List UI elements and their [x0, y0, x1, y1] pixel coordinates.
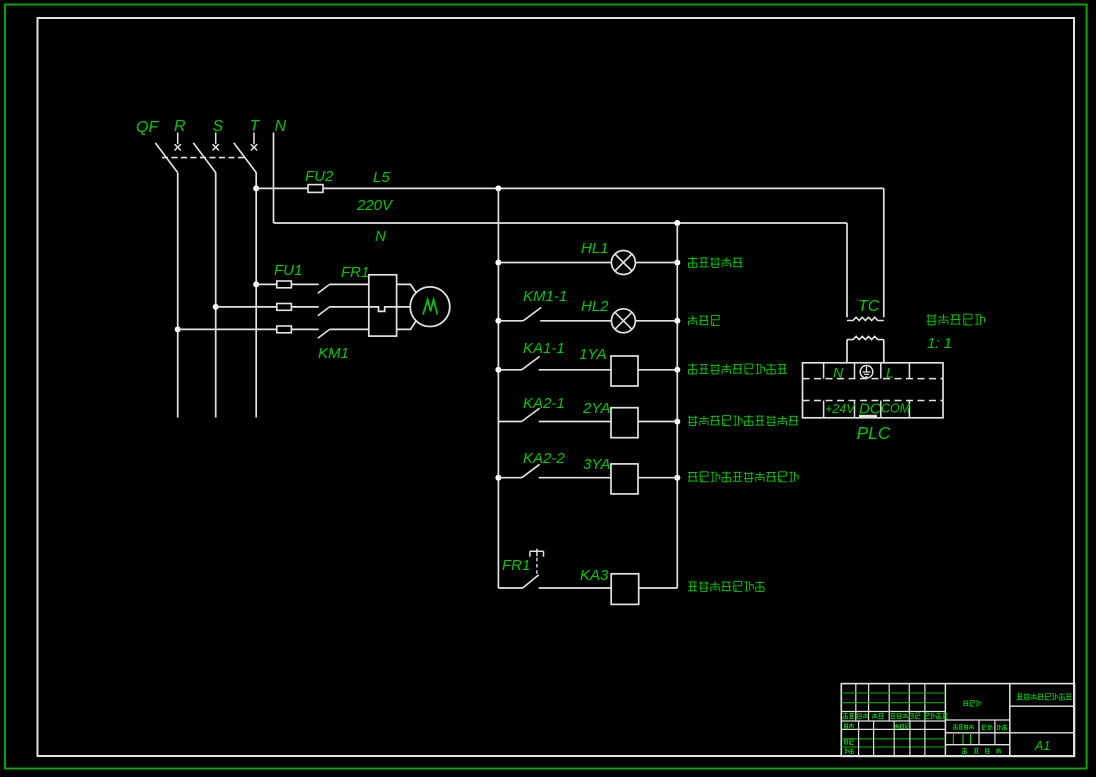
contact FR1 blade (NC thermal)	[523, 575, 539, 588]
wire KA3 right	[639, 587, 678, 589]
label motor overload protection	[688, 581, 765, 592]
cell text biaozhunhua	[895, 724, 910, 729]
wire KA2-2 left	[498, 477, 521, 479]
contact KA2-2 blade	[522, 464, 540, 477]
svg-text:N: N	[833, 365, 844, 381]
wire KM1 row2 to FR1	[329, 306, 369, 308]
PLC bottom terminal divider x=880.8	[880, 401, 882, 418]
coil 3YA	[611, 464, 638, 494]
contact KA2-1 blade	[522, 408, 540, 421]
ground symbol (PE terminal)	[860, 366, 873, 379]
wire KM1 row3 to FR1	[329, 328, 369, 330]
wire phase T vertical	[255, 172, 257, 417]
svg-text:KA2-1: KA2-1	[523, 395, 565, 412]
breaker QF pole S contact x-mark	[213, 144, 219, 150]
wire N bus	[274, 222, 848, 224]
wire FU1 row2 lead-in	[216, 306, 277, 308]
wire KA3 middle	[539, 587, 612, 589]
thermal relay FR1 box	[369, 275, 397, 336]
wire phase S vertical	[215, 173, 217, 418]
svg-text:PLC: PLC	[857, 423, 891, 443]
svg-text:N: N	[275, 118, 287, 135]
coil KA3	[611, 574, 639, 605]
transformer TC primary winding	[847, 317, 884, 320]
cell text gong-zhang-di-zhang	[962, 748, 967, 754]
svg-text:QF: QF	[136, 119, 159, 136]
contactor KM1 main contact 3 blade	[318, 330, 329, 339]
node 3YA right	[674, 475, 680, 481]
PLC bottom terminal divider x=854.5	[854, 401, 856, 418]
PLC bottom terminal divider x=823.6	[823, 401, 825, 418]
fuse FU1-3	[277, 326, 292, 333]
PLC top terminal divider x=880.8	[880, 363, 882, 379]
wire HL1 right	[635, 262, 677, 264]
motor M circle	[410, 287, 450, 327]
PLC top terminal dashed line	[803, 378, 944, 380]
svg-text:N: N	[375, 228, 386, 245]
wire KM1 row1 to FR1	[329, 283, 369, 285]
svg-text:KA1-1: KA1-1	[523, 340, 565, 357]
wire 3YA middle	[539, 477, 611, 479]
fuse FU2	[308, 185, 323, 193]
node HL2 left	[495, 318, 501, 324]
svg-text:TC: TC	[858, 298, 880, 315]
contactor KM1 main contact 1 blade	[318, 285, 329, 294]
wire N down to TC	[846, 223, 848, 317]
svg-text:T: T	[250, 118, 261, 135]
wire 3YA right	[638, 477, 677, 479]
svg-text:FU2: FU2	[305, 168, 334, 185]
thermal FR1 dashed link	[536, 557, 538, 574]
node S to FU1 row2	[213, 304, 219, 310]
wire FU1 row3 to KM1	[291, 328, 318, 330]
breaker QF pole T contact x-mark	[251, 144, 257, 150]
wire FR1 row1 to motor	[397, 284, 417, 292]
breaker QF pole T top stub	[253, 133, 255, 145]
cell text shenhe	[844, 740, 854, 745]
title text circuit diagram (center)	[963, 701, 981, 707]
label erwei-ertong solenoid up label	[688, 364, 787, 375]
wire TC secondary right lead	[883, 340, 885, 363]
svg-text:FR1: FR1	[502, 557, 530, 574]
title block grid	[841, 684, 1074, 757]
label isolation transformer	[927, 314, 985, 325]
svg-text:KA2-2: KA2-2	[523, 450, 565, 467]
contact KA1-1 blade	[522, 356, 540, 369]
cell text jieduanbiaoji	[953, 724, 974, 729]
breaker QF linkage dashed line	[162, 157, 247, 159]
svg-text:S: S	[213, 118, 224, 135]
lamp HL2	[611, 309, 635, 333]
svg-text:1: 1: 1: 1	[927, 335, 952, 352]
svg-text:220V: 220V	[356, 197, 394, 214]
cell text bili	[997, 725, 1007, 730]
title row biaoji-chushu-fenqu	[843, 713, 854, 719]
node R to FU1 row3	[175, 326, 181, 332]
svg-text:FR1: FR1	[341, 264, 369, 281]
svg-text:R: R	[174, 118, 186, 135]
node HL1 left	[495, 260, 501, 266]
wire 1YA right	[638, 369, 677, 371]
svg-text:KM1: KM1	[318, 345, 349, 362]
svg-text:COM: COM	[881, 402, 911, 416]
fuse FU1-2	[277, 304, 292, 311]
lamp HL1	[611, 251, 635, 275]
PLC box	[803, 363, 944, 418]
svg-text:3YA: 3YA	[583, 456, 611, 473]
wire L5 bus	[323, 187, 884, 189]
label M (motor)	[423, 300, 438, 315]
svg-text:+24V: +24V	[825, 402, 856, 416]
svg-text:HL2: HL2	[581, 298, 609, 315]
label sanwei-sitong solenoid 11 right label	[688, 471, 798, 482]
wire HL2 middle	[540, 320, 611, 322]
node 3YA left	[495, 475, 501, 481]
breaker QF pole S blade	[193, 143, 215, 173]
node L5 to left control bus	[495, 185, 501, 191]
wire KA1-1 left	[498, 369, 521, 371]
fuse FU1-1	[277, 281, 292, 288]
wire KM1-1 left	[498, 320, 523, 322]
contactor KM1 main contact 2 blade	[318, 307, 329, 316]
label sanwei-sitong solenoid 11 left label	[688, 415, 798, 426]
wire TC secondary left lead	[846, 340, 848, 363]
cell text shuliang	[982, 725, 992, 730]
label beng-tishi	[688, 315, 720, 325]
cell text gongyi	[844, 749, 853, 754]
breaker QF pole R top stub	[177, 133, 179, 145]
wire KA2-1 left	[498, 421, 521, 423]
breaker QF pole S top stub	[215, 133, 217, 145]
transformer TC secondary winding	[847, 336, 884, 339]
svg-text:A1: A1	[1034, 739, 1050, 753]
wire 2YA middle	[539, 421, 611, 423]
svg-text:HL1: HL1	[581, 240, 609, 257]
wire neutral N vertical	[273, 133, 275, 224]
wire L5 bus segment left	[256, 187, 308, 189]
svg-text:1YA: 1YA	[579, 346, 607, 363]
wire FR1 contact left	[498, 587, 522, 589]
svg-text:2YA: 2YA	[582, 400, 611, 417]
node 1YA right	[674, 367, 680, 373]
wire phase R vertical	[177, 173, 179, 418]
wire FR1 row3 to motor	[397, 321, 417, 330]
wire left control bus	[497, 188, 499, 588]
node HL2 right	[674, 318, 680, 324]
thermal relay FR1 heater wire with notch	[369, 307, 411, 312]
node 1YA left	[495, 367, 501, 373]
PLC top terminal divider x=909.4	[908, 363, 910, 379]
breaker QF pole T blade	[234, 143, 256, 173]
wire FU1 row2 to KM1	[291, 306, 318, 308]
contact KM1-1 blade	[523, 307, 541, 320]
svg-text:KA3: KA3	[580, 567, 609, 584]
wire right control bus	[676, 223, 678, 588]
wire FU1 row3 lead-in	[178, 328, 277, 330]
svg-text:KM1-1: KM1-1	[523, 288, 567, 305]
wire 1YA middle	[539, 369, 611, 371]
svg-text:FU1: FU1	[274, 262, 302, 279]
PLC bottom terminal dashed line	[803, 400, 944, 402]
node N to right control bus	[674, 220, 680, 226]
breaker QF pole R blade	[155, 143, 177, 173]
PLC top terminal divider x=823.6	[823, 363, 825, 379]
PLC top terminal divider x=854.5	[854, 363, 856, 379]
wire FU1 row1 to KM1	[291, 283, 318, 285]
coil 2YA	[611, 408, 638, 438]
node T-L5 junction	[253, 185, 259, 191]
title text liangshi-chouyouji circuit diagram	[1017, 693, 1072, 700]
svg-text:L5: L5	[373, 169, 390, 186]
svg-text:L: L	[886, 365, 894, 381]
label dianyuan-zhishideng	[688, 257, 742, 268]
wire HL1 left	[498, 262, 611, 264]
wire 2YA right	[638, 421, 677, 423]
node HL1 right	[674, 260, 680, 266]
node T to FU1 row1	[253, 281, 259, 287]
wire HL2 right	[635, 320, 677, 322]
wire L5 down to TC	[883, 188, 885, 317]
cell text sheji	[844, 723, 854, 728]
node 2YA right	[674, 419, 680, 425]
coil 1YA	[611, 356, 638, 386]
PLC bottom terminal divider x=909.4	[908, 401, 910, 418]
wire FU1 row1 lead-in	[256, 283, 277, 285]
breaker QF pole R contact x-mark	[175, 144, 181, 150]
thermal FR1 element symbol	[530, 549, 544, 557]
